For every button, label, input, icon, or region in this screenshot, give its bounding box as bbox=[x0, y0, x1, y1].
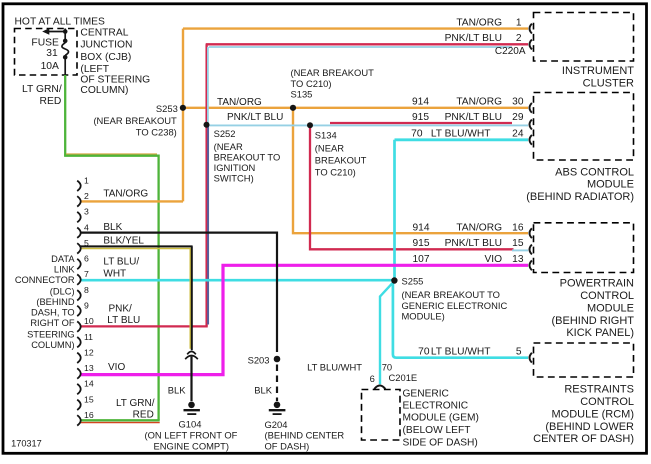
svg-text:24: 24 bbox=[512, 128, 524, 139]
svg-text:4: 4 bbox=[84, 222, 89, 232]
svg-text:G204: G204 bbox=[265, 419, 288, 430]
svg-text:8: 8 bbox=[84, 285, 89, 295]
svg-text:G104: G104 bbox=[179, 419, 202, 430]
svg-text:TAN/ORG: TAN/ORG bbox=[456, 222, 502, 233]
wire VIO: DLC pin 13 right then up then to PCM pin 13 bbox=[80, 265, 528, 374]
svg-text:914: 914 bbox=[413, 222, 430, 233]
DLC pin 7 bracket bbox=[77, 274, 81, 284]
splice S134 bbox=[307, 122, 313, 128]
svg-text:RED: RED bbox=[40, 96, 62, 107]
DLC pin 15 bracket bbox=[77, 400, 81, 410]
svg-text:2: 2 bbox=[516, 33, 522, 44]
DLC pin 5 bracket bbox=[77, 243, 81, 253]
svg-text:(ON LEFT FRONT OF: (ON LEFT FRONT OF bbox=[145, 429, 238, 440]
svg-text:BOX (CJB): BOX (CJB) bbox=[80, 52, 131, 63]
svg-text:14: 14 bbox=[84, 379, 94, 389]
svg-text:GENERIC ELECTRONIC: GENERIC ELECTRONIC bbox=[402, 300, 508, 311]
GEM pin 6 bracket bbox=[374, 386, 385, 390]
label S255 bbox=[402, 275, 508, 321]
PCM pin 13 bracket bbox=[530, 260, 532, 270]
svg-text:BLK: BLK bbox=[254, 384, 272, 395]
wire PNK/LT BLU: pink run to instrument cluster pin 2 bbox=[206, 43, 528, 45]
svg-text:HOT AT ALL TIMES: HOT AT ALL TIMES bbox=[15, 16, 106, 27]
svg-text:WHT: WHT bbox=[103, 269, 126, 280]
inline connector symbol above G104 bbox=[185, 352, 198, 360]
svg-text:GENERIC: GENERIC bbox=[403, 388, 449, 399]
svg-text:1: 1 bbox=[84, 175, 89, 185]
svg-text:LT BLU/WHT: LT BLU/WHT bbox=[431, 346, 491, 357]
wire labels 70 LT BLU/WHT 24 bbox=[411, 128, 524, 139]
svg-text:PNK/: PNK/ bbox=[109, 303, 133, 314]
svg-text:(NEAR: (NEAR bbox=[214, 141, 243, 152]
svg-text:31: 31 bbox=[46, 48, 58, 59]
restraints control module box bbox=[534, 343, 634, 377]
svg-text:5: 5 bbox=[516, 346, 522, 357]
splice S135 bbox=[290, 105, 296, 111]
wire BLK: connector to ground G104 bbox=[190, 357, 192, 402]
wire PNK/LT BLU: light blue S252-S134-ABS pin 29 bbox=[207, 124, 528, 126]
fuse value labels bbox=[31, 38, 59, 72]
svg-text:LT BLU: LT BLU bbox=[107, 315, 140, 326]
RCM pin 5 bracket bbox=[530, 353, 532, 363]
wire label 70 LT BLU/WHT at GEM drop bbox=[307, 361, 392, 372]
PCM pin 15 bracket bbox=[530, 245, 532, 255]
DLC pin 12 bracket bbox=[77, 353, 81, 363]
wire TAN/ORG: S135 down then to PCM pin 16 bbox=[293, 108, 528, 233]
wire TAN/ORG: vertical S253 to DLC pin 2 branch bbox=[182, 29, 184, 202]
svg-text:RED: RED bbox=[133, 410, 154, 421]
svg-text:LINK: LINK bbox=[54, 265, 75, 275]
svg-text:BREAKOUT TO: BREAKOUT TO bbox=[214, 151, 281, 162]
svg-text:10A: 10A bbox=[41, 61, 59, 72]
svg-text:LT BLU/: LT BLU/ bbox=[103, 256, 139, 267]
wire labels 107 VIO 13 bbox=[413, 254, 524, 265]
svg-text:2: 2 bbox=[84, 191, 89, 201]
svg-text:PNK/LT BLU: PNK/LT BLU bbox=[445, 238, 502, 249]
svg-text:16: 16 bbox=[84, 410, 94, 420]
svg-text:TO C210): TO C210) bbox=[291, 78, 332, 89]
svg-text:COLUMN): COLUMN) bbox=[31, 340, 74, 350]
svg-text:CONTROL: CONTROL bbox=[580, 290, 634, 302]
svg-text:ABS CONTROL: ABS CONTROL bbox=[555, 166, 634, 178]
ground G104 bbox=[184, 402, 200, 415]
svg-text:(BEHIND RADIATOR): (BEHIND RADIATOR) bbox=[526, 191, 634, 203]
DLC pin 4 bracket bbox=[77, 228, 81, 238]
DLC pin 11 bracket bbox=[77, 337, 81, 347]
splice S203 bbox=[274, 356, 281, 363]
svg-text:POWERTRAIN: POWERTRAIN bbox=[560, 278, 634, 290]
svg-text:(BEHIND CENTER: (BEHIND CENTER bbox=[265, 429, 345, 440]
ABS pin 24 bracket bbox=[530, 135, 532, 145]
svg-text:DATA: DATA bbox=[51, 254, 75, 264]
wire LT BLU/WHT: ABS pin 24 horizontal bbox=[395, 138, 529, 141]
svg-text:915: 915 bbox=[413, 238, 430, 249]
svg-text:TAN/ORG: TAN/ORG bbox=[456, 17, 502, 28]
svg-text:70: 70 bbox=[411, 128, 423, 139]
svg-text:VIO: VIO bbox=[484, 254, 502, 265]
svg-text:1: 1 bbox=[516, 17, 522, 28]
label S134 bbox=[315, 130, 367, 178]
svg-text:CLUSTER: CLUSTER bbox=[583, 77, 634, 89]
svg-text:MODULE (RCM): MODULE (RCM) bbox=[552, 408, 635, 420]
svg-text:JUNCTION: JUNCTION bbox=[80, 40, 132, 51]
svg-text:TAN/ORG: TAN/ORG bbox=[103, 189, 148, 200]
wire label LT GRN/RED at pin 16 bbox=[116, 398, 155, 421]
wire LT GRN/RED: fuse down bbox=[64, 75, 66, 156]
svg-text:IGNITION: IGNITION bbox=[214, 162, 256, 173]
wire label LT GRN/RED (fuse output) bbox=[22, 84, 62, 107]
svg-text:RIGHT OF: RIGHT OF bbox=[30, 318, 75, 328]
svg-text:12: 12 bbox=[84, 347, 94, 357]
svg-text:PNK/LT BLU: PNK/LT BLU bbox=[445, 112, 502, 123]
svg-text:7: 7 bbox=[84, 269, 89, 279]
wire PNK/LT BLU: light blue vertical stripe upper bbox=[207, 47, 209, 124]
svg-text:16: 16 bbox=[512, 222, 524, 233]
wire label LT BLU/WHT at DLC pins 6-7 bbox=[103, 256, 139, 279]
wire PNK/LT BLU: pink vertical S252 branch down to DLC pin 10 level bbox=[205, 44, 207, 326]
svg-text:SIDE OF DASH): SIDE OF DASH) bbox=[403, 437, 478, 448]
DLC pin 6 bracket bbox=[77, 259, 81, 269]
svg-text:914: 914 bbox=[412, 97, 429, 108]
svg-text:BLK/YEL: BLK/YEL bbox=[103, 236, 144, 247]
svg-text:KICK PANEL): KICK PANEL) bbox=[566, 327, 634, 339]
fuse F31 10A bbox=[47, 29, 69, 76]
wire BLK dashed: S203 to ground G204 bbox=[276, 365, 278, 402]
wire LT BLU/WHT: S255 branch to GEM pin 6 bbox=[380, 281, 394, 384]
wire labels 915 PNK/LT BLU 29 bbox=[412, 112, 524, 123]
wire BLK: DLC pin 4 right then down to S203 bbox=[80, 233, 277, 352]
svg-text:TO C210): TO C210) bbox=[315, 167, 356, 178]
wire LT BLU/WHT: DLC pin 7 to S255 bbox=[80, 279, 394, 282]
svg-text:TAN/ORG: TAN/ORG bbox=[456, 97, 502, 108]
ABS control module box bbox=[534, 93, 634, 161]
svg-text:11: 11 bbox=[84, 332, 93, 342]
svg-text:6: 6 bbox=[370, 373, 375, 384]
svg-text:SWITCH): SWITCH) bbox=[214, 173, 254, 184]
RCM module name bbox=[533, 384, 634, 446]
svg-text:(NEAR BREAKOUT: (NEAR BREAKOUT bbox=[291, 67, 375, 78]
wire label PNK/LT BLU at DLC pin 10 bbox=[107, 303, 140, 326]
svg-text:BLK: BLK bbox=[103, 222, 122, 233]
ABS module name bbox=[526, 166, 634, 203]
wire labels PNK/LT BLU 2 bbox=[445, 33, 522, 44]
svg-text:LT GRN/: LT GRN/ bbox=[116, 398, 155, 409]
svg-text:MODULE (GEM): MODULE (GEM) bbox=[403, 413, 479, 424]
DLC pin 9 bracket bbox=[77, 306, 81, 316]
label G204 bbox=[265, 419, 345, 451]
svg-text:(BEHIND LOWER: (BEHIND LOWER bbox=[545, 421, 634, 433]
svg-text:9: 9 bbox=[84, 301, 89, 311]
DLC pin 10 bracket bbox=[77, 321, 81, 331]
label S252 bbox=[214, 128, 281, 184]
label S135 bbox=[291, 67, 375, 100]
svg-text:(BEHIND: (BEHIND bbox=[36, 297, 75, 307]
svg-text:(NEAR BREAKOUT: (NEAR BREAKOUT bbox=[93, 115, 177, 126]
GEM pin labels 6 C201E bbox=[370, 372, 418, 384]
DLC pin 3 bracket bbox=[77, 212, 81, 222]
powertrain control module box bbox=[534, 223, 634, 273]
label S253 bbox=[93, 103, 177, 138]
svg-text:BREAKOUT: BREAKOUT bbox=[315, 155, 367, 166]
wire labels 914 TAN/ORG 16 bbox=[413, 222, 524, 233]
svg-text:MODULE: MODULE bbox=[587, 302, 634, 314]
svg-text:15: 15 bbox=[512, 238, 524, 249]
svg-text:MODULE: MODULE bbox=[587, 179, 634, 191]
svg-text:70: 70 bbox=[418, 346, 430, 357]
svg-text:PNK/LT BLU: PNK/LT BLU bbox=[227, 112, 283, 123]
wire PNK/LT BLU: pink overlay to ABS pin 29 bbox=[330, 122, 512, 124]
ABS pin 30 bracket bbox=[530, 103, 532, 113]
DLC pin 14 bracket bbox=[77, 384, 81, 394]
wire PNK/LT BLU: light blue stub at PCM pin 15 bbox=[512, 249, 528, 251]
wire LT GRN/RED: red companion stripe to pin 16 bbox=[81, 422, 160, 424]
svg-text:3: 3 bbox=[84, 207, 89, 217]
svg-text:915: 915 bbox=[412, 112, 429, 123]
svg-text:S252: S252 bbox=[214, 128, 236, 139]
DLC pin 2 bracket bbox=[77, 196, 81, 206]
wire BLK/YEL: vertical down to inline connector bbox=[191, 246, 193, 350]
wire LT GRN/RED: tan companion stripe on horizontal bbox=[66, 153, 157, 155]
svg-text:CENTRAL: CENTRAL bbox=[80, 27, 128, 38]
svg-text:30: 30 bbox=[512, 97, 524, 108]
svg-text:TO C238): TO C238) bbox=[136, 127, 177, 138]
svg-text:6: 6 bbox=[84, 254, 89, 264]
data link connector DLC pin brackets and numbers bbox=[77, 181, 81, 426]
svg-text:LT BLU/WHT: LT BLU/WHT bbox=[307, 361, 362, 372]
wire labels TAN/ORG 1 bbox=[456, 17, 521, 28]
svg-text:(LEFT: (LEFT bbox=[80, 64, 109, 75]
wire PNK/LT BLU: DLC pin 10 horizontal bbox=[80, 325, 207, 327]
svg-text:PNK/LT BLU: PNK/LT BLU bbox=[445, 33, 502, 44]
svg-text:STEERING: STEERING bbox=[27, 329, 75, 339]
svg-text:S134: S134 bbox=[315, 130, 337, 141]
svg-text:(DLC): (DLC) bbox=[50, 286, 75, 296]
label G104 bbox=[145, 419, 238, 452]
splice S252 bbox=[204, 122, 210, 128]
svg-text:S253: S253 bbox=[156, 103, 178, 114]
wire BLK/YEL: DLC pin 5 horizontal black bbox=[80, 245, 192, 247]
svg-text:70: 70 bbox=[382, 361, 392, 372]
DLC pin 8 bracket bbox=[77, 290, 81, 300]
svg-text:CENTER OF DASH): CENTER OF DASH) bbox=[533, 433, 634, 445]
splice S253 bbox=[180, 105, 186, 111]
svg-text:RESTRAINTS: RESTRAINTS bbox=[564, 384, 634, 396]
DLC connector description bbox=[15, 254, 76, 350]
svg-text:OF DASH): OF DASH) bbox=[265, 440, 310, 451]
generic electronic module GEM box bbox=[362, 390, 401, 441]
svg-text:BLK: BLK bbox=[168, 384, 186, 395]
svg-text:S135: S135 bbox=[291, 89, 313, 100]
svg-text:S203: S203 bbox=[248, 354, 270, 365]
wire labels 70 LT BLU/WHT 5 bbox=[418, 346, 522, 357]
central junction box CJB (dashed) bbox=[15, 29, 78, 76]
svg-text:29: 29 bbox=[512, 112, 524, 123]
ground G204 bbox=[269, 402, 286, 415]
instrument cluster pin 2 bracket bbox=[530, 40, 532, 50]
DLC pin 16 bracket bbox=[77, 415, 81, 425]
DLC pin 1 bracket bbox=[77, 181, 81, 191]
svg-text:DASH, TO: DASH, TO bbox=[31, 308, 75, 318]
wire LT GRN/RED: into DLC pin 16 bbox=[80, 419, 159, 421]
PCM module name bbox=[552, 278, 635, 340]
svg-text:15: 15 bbox=[84, 394, 94, 404]
instrument cluster name bbox=[562, 65, 634, 89]
PCM pin 16 bracket bbox=[530, 228, 532, 238]
DLC pin 13 bracket bbox=[77, 368, 81, 378]
wire LT BLU/WHT: vertical ABS 24 down to S255 bbox=[393, 140, 396, 280]
wire PNK/LT BLU: S134 down then to PCM pin 15 bbox=[310, 125, 514, 249]
ABS pin 29 bracket bbox=[530, 120, 532, 130]
svg-text:CONNECTOR: CONNECTOR bbox=[15, 275, 75, 285]
svg-text:(BEHIND RIGHT: (BEHIND RIGHT bbox=[552, 315, 635, 327]
svg-text:LT BLU/WHT: LT BLU/WHT bbox=[431, 128, 491, 139]
svg-text:13: 13 bbox=[84, 363, 94, 373]
svg-text:ENGINE COMPT): ENGINE COMPT) bbox=[154, 440, 230, 451]
svg-text:VIO: VIO bbox=[108, 362, 125, 373]
wire TAN/ORG: DLC pin 2 horizontal bbox=[80, 200, 183, 202]
wire TAN/ORG: to instrument cluster pin 1 bbox=[183, 27, 528, 29]
wire PNK/LT BLU: light blue stripe to instrument cluster pin 2 bbox=[209, 46, 512, 48]
svg-text:TAN/ORG: TAN/ORG bbox=[217, 97, 262, 108]
svg-text:13: 13 bbox=[512, 254, 524, 265]
svg-text:170317: 170317 bbox=[11, 438, 42, 448]
CJB description text bbox=[80, 27, 150, 96]
svg-text:(NEAR BREAKOUT TO: (NEAR BREAKOUT TO bbox=[402, 289, 500, 300]
instrument cluster pin 1 bracket bbox=[530, 24, 532, 34]
wire LT GRN/RED: horizontal then down to DLC pin16 level bbox=[64, 156, 159, 421]
svg-text:INSTRUMENT: INSTRUMENT bbox=[562, 65, 634, 77]
svg-text:COLUMN): COLUMN) bbox=[80, 85, 128, 96]
svg-text:5: 5 bbox=[84, 238, 89, 248]
instrument cluster module box bbox=[534, 13, 634, 62]
wire labels 915 PNK/LT BLU 15 bbox=[413, 238, 524, 249]
wire BLK/YEL: yellow stripe bbox=[80, 249, 190, 349]
svg-text:S255: S255 bbox=[402, 275, 424, 286]
wire PNK/LT BLU: blue vertical stripe lower bbox=[207, 124, 209, 325]
svg-text:CONTROL: CONTROL bbox=[580, 396, 634, 408]
svg-text:OF STEERING: OF STEERING bbox=[80, 75, 150, 86]
svg-text:LT GRN/: LT GRN/ bbox=[22, 84, 62, 95]
wire labels 914 TAN/ORG 30 bbox=[412, 97, 524, 108]
wire TAN/ORG: S253 to S135 to ABS pin 30 bbox=[183, 107, 528, 109]
svg-text:ELECTRONIC: ELECTRONIC bbox=[403, 401, 469, 412]
splice S255 bbox=[391, 277, 397, 283]
GEM module name bbox=[403, 388, 479, 448]
svg-text:10: 10 bbox=[84, 316, 94, 326]
svg-text:C201E: C201E bbox=[389, 372, 418, 383]
svg-text:MODULE): MODULE) bbox=[402, 310, 445, 321]
svg-text:C220A: C220A bbox=[495, 46, 526, 57]
svg-text:107: 107 bbox=[413, 254, 430, 265]
svg-text:(NEAR: (NEAR bbox=[315, 143, 344, 154]
wire LT BLU/WHT: S255 down then to RCM pin 5 bbox=[393, 280, 528, 358]
svg-text:(BELOW LEFT: (BELOW LEFT bbox=[403, 425, 471, 436]
